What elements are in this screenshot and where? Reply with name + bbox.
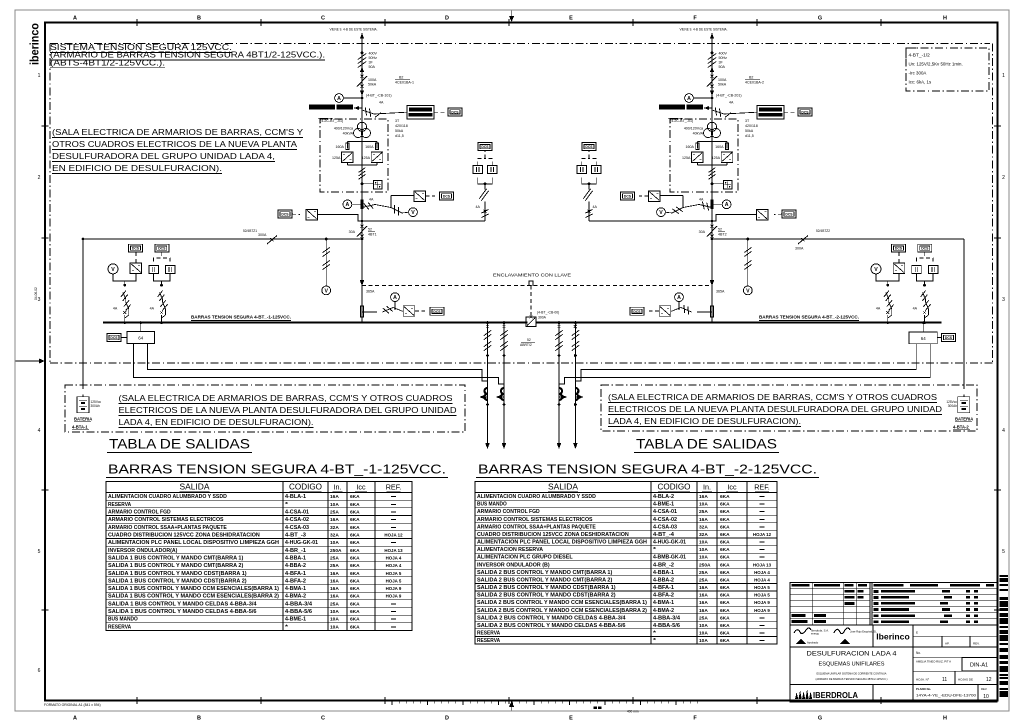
svg-text:6KA: 6KA	[720, 570, 730, 576]
svg-text:6KA: 6KA	[350, 540, 360, 546]
svg-text:6KA: 6KA	[720, 502, 730, 508]
svg-text:16A: 16A	[699, 585, 708, 591]
ammeter near output 1	[343, 200, 362, 209]
svg-text:ALIMENTACION PLC PANEL LOCAL D: ALIMENTACION PLC PANEL LOCAL DISPOSITIVO…	[477, 540, 647, 546]
svg-text:4A: 4A	[369, 198, 374, 202]
svg-text:4-BR_-2: 4-BR_-2	[653, 562, 674, 568]
svg-text:4-BBA-3/4: 4-BBA-3/4	[653, 615, 680, 621]
svg-text:6KA: 6KA	[350, 525, 360, 531]
rectifier module 125A right 1	[362, 152, 383, 163]
svg-text:DCS: DCS	[158, 247, 166, 251]
fused connection to bus 1	[150, 284, 168, 324]
svg-text:6KA: 6KA	[350, 494, 360, 500]
svg-text:4-BTA-1: 4-BTA-1	[72, 425, 88, 430]
svg-text:DCS: DCS	[624, 195, 632, 199]
bus metering transducer to DCS 2	[630, 293, 712, 316]
svg-text:RESERVA: RESERVA	[108, 502, 131, 508]
sala electrica annotation box bus 1	[65, 385, 465, 432]
svg-text:DCS: DCS	[132, 247, 140, 251]
svg-text:A: A	[677, 295, 681, 301]
fuse 160A right branch 1	[365, 143, 379, 150]
svg-text:4-BTA-2: 4-BTA-2	[953, 425, 969, 430]
svg-text:d11,5: d11,5	[745, 134, 754, 138]
svg-text:VIENE 9. 4-B DE ESTE SISTEMA.: VIENE 9. 4-B DE ESTE SISTEMA.	[680, 28, 728, 32]
svg-text:365A: 365A	[366, 290, 375, 294]
rele falta red with DCS link 1	[362, 101, 462, 120]
svg-text:50kA: 50kA	[745, 129, 754, 133]
svg-text:V: V	[111, 267, 115, 273]
svg-text:10A: 10A	[699, 555, 708, 561]
svg-text:64: 64	[921, 336, 926, 341]
svg-text:HOJA 5: HOJA 5	[754, 593, 770, 598]
earth-fault relay stack with DCS 2	[577, 143, 713, 223]
svg-text:HOJA. Nº: HOJA. Nº	[916, 678, 930, 682]
svg-text:CUADRO DISTRIBUCION 125VCC ZON: CUADRO DISTRIBUCION 125VCC ZONA DESHIDRA…	[477, 532, 629, 538]
svg-text:V: V	[411, 210, 415, 216]
fuse 160A right branch 2	[715, 143, 729, 150]
svg-text:6KA: 6KA	[720, 623, 730, 629]
bus metering transducer to DCS 1	[362, 293, 444, 316]
node feeder to battery tie 1	[361, 238, 364, 241]
svg-text:30A: 30A	[699, 230, 706, 234]
transducer to DCS upper 1	[391, 191, 454, 208]
svg-text:6KA: 6KA	[720, 585, 730, 591]
svg-text:4-HUG-GK-01: 4-HUG-GK-01	[285, 540, 318, 546]
svg-text:REV.: REV.	[981, 687, 987, 691]
svg-text:25A: 25A	[699, 509, 708, 515]
svg-text:6KA: 6KA	[350, 601, 360, 607]
dash-dot enclosure charger 1	[320, 119, 388, 192]
svg-text:HOJA 4: HOJA 4	[386, 563, 402, 568]
svg-text:HOJA 4: HOJA 4	[386, 555, 402, 560]
svg-text:10A: 10A	[699, 502, 708, 508]
svg-text:50kA: 50kA	[718, 83, 727, 87]
svg-text:125A: 125A	[682, 156, 691, 160]
transducer to DCS lower 2	[712, 209, 796, 221]
svg-text:energy: energy	[811, 632, 820, 636]
svg-text:25A: 25A	[699, 570, 708, 576]
svg-text:6KA: 6KA	[350, 586, 360, 592]
circuit breaker 4-BT_-CB-101 2	[707, 75, 742, 98]
dash-dot zone boundary left	[49, 44, 51, 364]
svg-text:6KA: 6KA	[720, 517, 730, 523]
svg-text:10A: 10A	[699, 547, 708, 553]
svg-text:A: A	[687, 96, 691, 102]
svg-text:4BT1: 4BT1	[368, 233, 377, 237]
svg-text:HOJA 13: HOJA 13	[384, 548, 403, 553]
bus1 table subtitle BARRAS TENSION SEGURA 4-BT_-1-125VCC.	[106, 462, 448, 478]
svg-text:6KA: 6KA	[720, 555, 730, 561]
svg-text:04-06-02: 04-06-02	[34, 287, 38, 300]
svg-text:300A: 300A	[538, 316, 547, 320]
fuse 160A left branch 1	[335, 143, 349, 150]
circuit breaker 4-BT_-CB-101 1	[357, 75, 392, 98]
top centering mark	[509, 11, 514, 23]
dash-dot zone boundary right	[991, 44, 993, 364]
svg-text:ALIMENTACION CUADRO ALUMBRADO: ALIMENTACION CUADRO ALUMBRADO Y SSDD	[477, 494, 596, 500]
svg-text:G: G	[818, 716, 822, 722]
svg-text:4-BMA-2: 4-BMA-2	[285, 594, 306, 600]
svg-text:HOJA 5: HOJA 5	[386, 578, 402, 583]
svg-text:TABLA DE SALIDAS: TABLA DE SALIDAS	[636, 437, 777, 452]
svg-text:52/4BTZ2: 52/4BTZ2	[816, 229, 830, 233]
fused connection to bus 2	[913, 284, 931, 324]
svg-text:BARRAS TENSION SEGURA 4-BT_-2-: BARRAS TENSION SEGURA 4-BT_-2-125VCC.	[759, 315, 859, 320]
title text block sistema tension segura	[50, 43, 325, 68]
svg-text:DESULFURADORA DEL GRUPO UNIDAD: DESULFURADORA DEL GRUPO UNIDAD LADA 4,	[52, 152, 275, 161]
border row ruler numbers 1-6 with ticks	[38, 73, 1006, 674]
fused connection to bus 2	[876, 284, 894, 324]
svg-text:6KA: 6KA	[350, 578, 360, 584]
protection relay pair group bus 2	[912, 244, 938, 286]
svg-text:RESERVA: RESERVA	[108, 624, 131, 630]
svg-text:4-BMA-1: 4-BMA-1	[653, 600, 674, 606]
voltage monitor tap bus 1	[322, 238, 331, 295]
svg-text:16A: 16A	[699, 600, 708, 606]
svg-text:(4-2C-BT_-01): (4-2C-BT_-01)	[670, 119, 693, 123]
title block outline	[790, 583, 997, 702]
svg-text:50Hz: 50Hz	[369, 56, 378, 60]
undervoltage relay 64 bus 2 with DCS	[909, 321, 955, 344]
svg-text:25A: 25A	[330, 510, 339, 516]
svg-text:In.: In.	[703, 483, 711, 492]
svg-text:Aprobado: Aprobado	[807, 641, 819, 645]
svg-text:32A: 32A	[699, 524, 708, 530]
revision table right	[872, 583, 997, 626]
voltmeter branch with 4A fuses 1	[362, 198, 417, 217]
iberinco logo vertical text	[30, 23, 42, 65]
ammeter at charger input 1	[335, 94, 364, 103]
svg-text:160A: 160A	[365, 145, 374, 149]
transducer to DCS lower 1	[278, 209, 362, 221]
bottom centering mark	[509, 701, 514, 711]
outgoing distribution feeder 1b	[496, 321, 508, 449]
svg-text:4-CSA-01: 4-CSA-01	[285, 510, 309, 516]
svg-text:SALIDA 2 BUS CONTROL Y MANDO C: SALIDA 2 BUS CONTROL Y MANDO CCM ESENCIA…	[477, 600, 647, 606]
revision table left	[790, 583, 870, 626]
outgoing distribution feeder 2b	[572, 321, 584, 449]
svg-text:BATERIA: BATERIA	[74, 417, 92, 422]
svg-text:420/118: 420/118	[395, 124, 408, 128]
arrow down after breaker 2	[710, 91, 714, 97]
svg-text:*: *	[285, 502, 288, 508]
svg-text:HOJA 4: HOJA 4	[754, 570, 770, 575]
svg-text:SALIDA 2 BUS CONTROL Y MANDO C: SALIDA 2 BUS CONTROL Y MANDO CDST(BARRA …	[477, 593, 616, 599]
svg-text:16A: 16A	[699, 593, 708, 599]
bus1 table grid and headers	[106, 482, 412, 631]
svg-text:6KA: 6KA	[720, 547, 730, 553]
svg-text:6KA: 6KA	[350, 624, 360, 630]
svg-text:4-CSA-03: 4-CSA-03	[285, 525, 309, 531]
transformer 4-2C-BT_ 1	[354, 122, 371, 137]
svg-text:(ARMARIO DE BARRAS TENSION SEG: (ARMARIO DE BARRAS TENSION SEGURA 4BT1/2…	[816, 677, 888, 681]
svg-text:250A: 250A	[699, 562, 711, 568]
svg-text:10A: 10A	[330, 609, 339, 615]
svg-text:HOJA 4: HOJA 4	[754, 578, 770, 583]
svg-text:SALIDA 1 BUS CONTROL Y MANDO C: SALIDA 1 BUS CONTROL Y MANDO CMT(BARRA 2…	[108, 563, 244, 569]
svg-text:6KA: 6KA	[720, 524, 730, 530]
svg-text:*: *	[653, 638, 656, 644]
svg-text:HOJA 9: HOJA 9	[386, 594, 402, 599]
svg-text:G: G	[818, 16, 822, 22]
svg-text:6KA: 6KA	[720, 540, 730, 546]
svg-text:Jose Rojo Esquival, SL: Jose Rojo Esquival, SL	[850, 630, 877, 634]
svg-text:(SALA ELECTRICA DE ARMARIOS DE: (SALA ELECTRICA DE ARMARIOS DE BARRAS, C…	[608, 393, 938, 402]
svg-text:6KA: 6KA	[350, 617, 360, 623]
svg-text:C: C	[321, 716, 325, 722]
svg-text:4-BLA-1: 4-BLA-1	[285, 494, 306, 500]
svg-text:LADA 4, EN EDIFICIO DE DESULFU: LADA 4, EN EDIFICIO DE DESULFURACION).	[608, 417, 801, 426]
svg-text:V: V	[659, 210, 663, 216]
transformer rating labels 2	[684, 119, 758, 138]
svg-text:25A: 25A	[699, 615, 708, 621]
svg-text:SALIDA: SALIDA	[180, 483, 211, 492]
arrow down after breaker 1	[360, 91, 364, 97]
svg-text:In.: In.	[334, 483, 342, 492]
busbar 4-BT_-2-125VCC	[536, 322, 942, 324]
svg-text:VIENE 9. 4-B DE ESTE SISTEMA.: VIENE 9. 4-B DE ESTE SISTEMA.	[330, 28, 378, 32]
svg-text:4-CSA-02: 4-CSA-02	[285, 517, 309, 523]
svg-text:BATERIA: BATERIA	[955, 417, 973, 422]
svg-text:64: 64	[138, 336, 143, 341]
svg-text:FORMATO ORIGINAL A1 (841 x 594: FORMATO ORIGINAL A1 (841 x 594)	[44, 703, 101, 707]
svg-text:10A: 10A	[330, 502, 339, 508]
incoming feeder line 2	[711, 33, 713, 323]
branch rejoin 1	[347, 162, 377, 165]
arrow up incoming 2	[710, 33, 714, 39]
svg-text:4-CSA-01: 4-CSA-01	[653, 509, 677, 515]
svg-text:4-BFA-1: 4-BFA-1	[285, 571, 306, 577]
svg-text:ALIMENTACION PLC GRUPO DIESEL: ALIMENTACION PLC GRUPO DIESEL	[477, 555, 573, 561]
svg-text:A: A	[73, 716, 77, 722]
svg-text:SALIDA: SALIDA	[548, 483, 579, 492]
svg-text:HOJA 13: HOJA 13	[753, 562, 772, 567]
svg-text:REV.: REV.	[973, 642, 980, 646]
svg-text:6KA: 6KA	[350, 533, 360, 539]
rectificador cargador label 2	[659, 105, 712, 123]
svg-text:4: 4	[1002, 428, 1005, 434]
ammeter near output 2	[712, 200, 731, 209]
svg-text:A: A	[725, 202, 729, 208]
svg-text:B: B	[197, 716, 201, 722]
bus2 table grid and headers	[475, 482, 777, 645]
svg-text:DCS: DCS	[443, 195, 451, 199]
svg-text:300Ah: 300Ah	[91, 404, 100, 408]
svg-text:B2: B2	[749, 76, 753, 80]
voltage monitor tap bus 2	[743, 238, 752, 295]
svg-text:4-BT_-3: 4-BT_-3	[285, 533, 306, 539]
svg-text:DIN-A1: DIN-A1	[970, 663, 988, 669]
svg-text:SALIDA 1 BUS CONTROL Y MANDO C: SALIDA 1 BUS CONTROL Y MANDO CELDAS 4-BB…	[108, 601, 257, 607]
node feeder to battery tie 2	[711, 238, 714, 241]
svg-text:A: A	[393, 295, 397, 301]
svg-text:4BT2: 4BT2	[718, 233, 727, 237]
left centering mark	[16, 359, 46, 364]
iberdrola logo	[795, 689, 858, 700]
svg-text:10A: 10A	[330, 540, 339, 546]
svg-text:Iberinco: Iberinco	[876, 632, 909, 642]
svg-text:4-BBA-5/6: 4-BBA-5/6	[653, 623, 680, 629]
svg-text:BUS MANDO: BUS MANDO	[477, 502, 507, 508]
battery 4-BTA-2	[946, 239, 973, 430]
svg-text:50A: 50A	[369, 65, 376, 69]
svg-text:SALIDA 1 BUS CONTROL Y MANDO C: SALIDA 1 BUS CONTROL Y MANDO CMT(BARRA 1…	[108, 555, 244, 561]
svg-text:Icc: Icc	[727, 483, 737, 492]
svg-text:50Hz: 50Hz	[719, 56, 728, 60]
svg-text:250A: 250A	[330, 548, 342, 554]
svg-text:400 mm: 400 mm	[627, 710, 639, 714]
formato original caption	[44, 703, 101, 707]
svg-text:4-HUG-GK-01: 4-HUG-GK-01	[653, 540, 686, 546]
enclavamiento con llave label	[493, 273, 571, 278]
battery tie line bus 2 with 300A switch	[712, 229, 964, 251]
svg-text:DCS: DCS	[633, 310, 641, 314]
svg-text:IBERDROLA: IBERDROLA	[813, 691, 858, 700]
relay 64 bus 1 sense lines	[134, 343, 504, 384]
svg-text:125A: 125A	[712, 156, 721, 160]
svg-text:6KA: 6KA	[720, 608, 730, 614]
rectifier module 125A right 2	[712, 152, 733, 163]
svg-text:40kVA: 40kVA	[693, 132, 704, 136]
svg-text:AMELIA TINEO RUIZ, PIT A: AMELIA TINEO RUIZ, PIT A	[916, 660, 951, 664]
svg-text:ARMARIO CONTROL SSAA+PLANTAS P: ARMARIO CONTROL SSAA+PLANTAS PAQUETE	[108, 525, 227, 531]
svg-text:SALIDA 1 BUS CONTROL Y MANDO C: SALIDA 1 BUS CONTROL Y MANDO CDST(BARRA …	[108, 571, 247, 577]
relay ref label 2	[745, 76, 764, 85]
title text block sala electrica upper	[52, 128, 304, 173]
svg-text:100A: 100A	[718, 78, 727, 82]
fuse link above bus 2	[710, 306, 713, 317]
supply cable marks 400V 50Hz 2	[708, 52, 728, 70]
svg-text:400V: 400V	[719, 52, 728, 56]
svg-text:16A: 16A	[330, 571, 339, 577]
svg-text:3: 3	[1002, 297, 1005, 303]
svg-text:4-BBA-2: 4-BBA-2	[285, 563, 306, 569]
battery tie line bus 1 with 300A switch	[83, 229, 362, 244]
svg-text:SALIDA 2 BUS CONTROL Y MANDO C: SALIDA 2 BUS CONTROL Y MANDO CELDAS 4-BB…	[477, 623, 626, 629]
svg-text:ALIMENTACION RESERVA: ALIMENTACION RESERVA	[477, 547, 543, 553]
node on feeder 2	[711, 51, 714, 54]
svg-text:6KA: 6KA	[720, 600, 730, 606]
rele falta red with DCS link 2	[712, 101, 812, 120]
svg-text:32A: 32A	[330, 525, 339, 531]
svg-text:4A: 4A	[113, 307, 118, 311]
approval cells	[913, 631, 997, 648]
svg-text:4A: 4A	[729, 101, 734, 105]
svg-text:6: 6	[38, 668, 41, 674]
svg-text:V: V	[324, 288, 328, 294]
svg-text:DCS: DCS	[481, 145, 489, 149]
branch rejoin 2	[697, 162, 727, 165]
incoming feeder line 1	[361, 33, 363, 323]
svg-text:ELECTRICOS DE LA NUEVA PLANTA: ELECTRICOS DE LA NUEVA PLANTA DESULFURAD…	[119, 406, 457, 415]
info box 4-BT_-1/2 ratings	[906, 48, 989, 91]
supply cable marks 400V 50Hz 1	[358, 52, 378, 70]
branch split 2	[697, 142, 727, 149]
svg-text:DCS: DCS	[281, 213, 289, 217]
svg-text:ARMARIO CONTROL FGD: ARMARIO CONTROL FGD	[477, 509, 540, 515]
outgoing distribution feeder 2a	[555, 321, 567, 449]
svg-text:BARRAS TENSION SEGURA 4-BT_: BARRAS TENSION SEGURA 4-BT_-1-125VCC.	[108, 462, 446, 477]
bus1 table row texts	[108, 494, 403, 630]
arrow up incoming 1	[360, 33, 364, 39]
svg-text:HOJA 9: HOJA 9	[754, 600, 770, 605]
svg-text:16A: 16A	[699, 517, 708, 523]
svg-text:ARMARIO CONTROL SSAA+PLANTAS P: ARMARIO CONTROL SSAA+PLANTAS PAQUETE	[477, 524, 596, 530]
svg-text:10A: 10A	[699, 540, 708, 546]
svg-text:CODIGO: CODIGO	[658, 483, 691, 492]
left margin small vertical note	[34, 287, 38, 300]
svg-text:-Irc 300A: -Irc 300A	[909, 71, 927, 76]
svg-text:SALIDA 2 BUS CONTROL Y MANDO C: SALIDA 2 BUS CONTROL Y MANDO CMT(BARRA 2…	[477, 578, 613, 584]
signatures	[794, 628, 877, 645]
svg-text:50kA: 50kA	[395, 129, 404, 133]
svg-text:*: *	[653, 631, 656, 637]
svg-text:6KA: 6KA	[720, 638, 730, 644]
svg-text:A: A	[337, 96, 341, 102]
svg-text:4A: 4A	[593, 205, 598, 209]
svg-text:A: A	[73, 16, 77, 22]
svg-text:B: B	[197, 16, 201, 22]
svg-text:4A: 4A	[913, 307, 918, 311]
svg-text:4-BR_-1: 4-BR_-1	[285, 548, 306, 554]
svg-text:6KA: 6KA	[350, 571, 360, 577]
svg-text:32A: 32A	[330, 533, 339, 539]
svg-text:ALIMENTACION PLC PANEL LOCAL D: ALIMENTACION PLC PANEL LOCAL DISPOSITIVO…	[108, 540, 279, 546]
svg-text:SALIDA 1 BUS CONTROL Y MANDO C: SALIDA 1 BUS CONTROL Y MANDO CELDAS 4-BB…	[108, 609, 257, 615]
svg-text:Icc: 6kA, 1s: Icc: 6kA, 1s	[909, 80, 932, 85]
svg-text:4A: 4A	[379, 101, 384, 105]
svg-text:6KA: 6KA	[350, 510, 360, 516]
svg-text:4-BFA-2: 4-BFA-2	[653, 593, 674, 599]
svg-text:4-CSA-03: 4-CSA-03	[653, 524, 677, 530]
svg-text:10A: 10A	[699, 631, 708, 637]
svg-text:D: D	[445, 16, 449, 22]
svg-text:100A: 100A	[368, 78, 377, 82]
svg-text:4-BT_-4: 4-BT_-4	[653, 532, 674, 538]
disconnector arrow 365A 2	[710, 280, 725, 294]
svg-text:6KA: 6KA	[720, 578, 730, 584]
svg-text:4-BMA-2: 4-BMA-2	[653, 608, 674, 614]
svg-text:10A: 10A	[330, 617, 339, 623]
svg-text:6KA: 6KA	[720, 562, 730, 568]
ammeter at charger input 2	[685, 94, 714, 103]
svg-text:Icc: Icc	[356, 483, 366, 492]
svg-text:25A: 25A	[330, 563, 339, 569]
svg-text:4A: 4A	[699, 198, 704, 202]
svg-text:25A: 25A	[330, 555, 339, 561]
svg-text:6KA: 6KA	[350, 517, 360, 523]
fuse 160A left branch 2	[685, 143, 699, 150]
svg-text:E: E	[569, 716, 573, 722]
svg-text:32A: 32A	[699, 532, 708, 538]
svg-text:DCS: DCS	[801, 110, 809, 114]
svg-text:V: V	[874, 267, 878, 273]
bus1 table title TABLA DE SALIDAS	[107, 437, 252, 453]
svg-text:CUADRO DISTRIBUCION 125VCC ZON: CUADRO DISTRIBUCION 125VCC ZONA DESHIDRA…	[108, 533, 260, 539]
cable marks below rectifier 2	[709, 168, 716, 180]
svg-text:DCS: DCS	[921, 247, 929, 251]
svg-text:RESERVA: RESERVA	[477, 638, 500, 644]
svg-text:4-BBA-3/4: 4-BBA-3/4	[285, 601, 312, 607]
bus2 table subtitle BARRAS TENSION SEGURA 4-BT_-2-125VCC.	[476, 462, 819, 478]
transducer to DCS upper 2	[621, 191, 684, 208]
arrow up mid 1	[360, 67, 364, 73]
svg-text:160A: 160A	[685, 145, 694, 149]
svg-text:400V: 400V	[369, 52, 378, 56]
svg-text:ESQUEMAS UNIFILARES: ESQUEMAS UNIFILARES	[819, 662, 886, 668]
svg-text:16A: 16A	[330, 494, 339, 500]
svg-text:10: 10	[983, 694, 989, 700]
